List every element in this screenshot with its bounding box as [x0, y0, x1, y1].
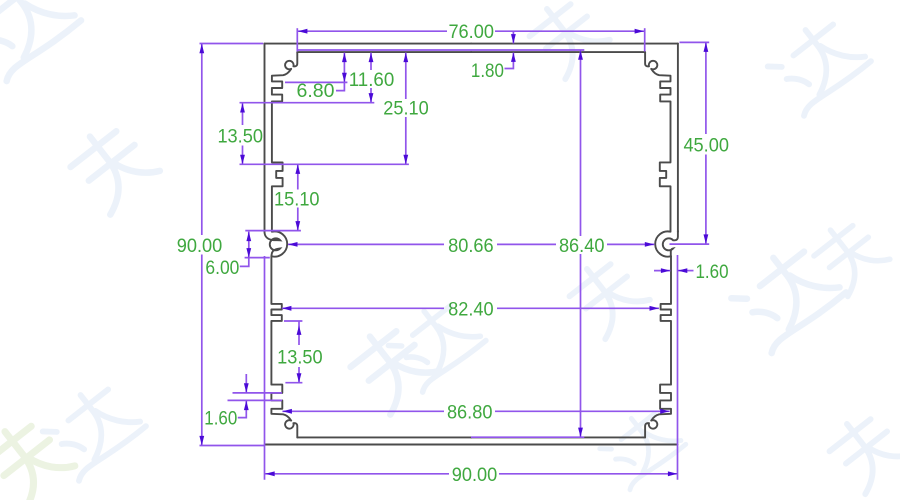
svg-text:1.60: 1.60 [204, 409, 237, 430]
dim 1.80 stub + leader [512, 32, 514, 43]
dim 6.00 + leader [240, 232, 249, 267]
svg-text:45.00: 45.00 [683, 136, 729, 157]
25.10 arrows [403, 53, 408, 63]
dim 13.50 lower [298, 321, 300, 345]
svg-text:6.80: 6.80 [297, 81, 335, 102]
6.00 arrows [246, 232, 251, 242]
dim 13.50 upper [242, 103, 244, 125]
left half of profile [265, 44, 472, 445]
right outer wall lower stub + right screw boss C-channel [663, 231, 678, 256]
svg-text:82.40: 82.40 [448, 300, 494, 321]
dim 15.10 [297, 164, 299, 189]
ext right outer wall / 90.00 bottom right (long vertical) [677, 255, 679, 480]
svg-text:11.60: 11.60 [349, 70, 395, 91]
ext shared y=231.5 (15.10 bottom / 6.00 top) [245, 230, 301, 232]
svg-text:6.00: 6.00 [205, 258, 239, 279]
svg-text:90.00: 90.00 [177, 236, 223, 257]
86.80 arrows [282, 409, 292, 414]
dim 25.10 [405, 53, 407, 99]
13.50 lower arrows [297, 325, 302, 335]
svg-text:86.80: 86.80 [447, 403, 493, 424]
90.00 bottom arrows [265, 471, 275, 476]
6.80 arrows [342, 53, 347, 63]
76.00 arrows [298, 29, 308, 34]
82.40 arrows [282, 306, 292, 311]
1.60 left arrows [244, 383, 249, 393]
86.40 arrows [578, 50, 583, 60]
svg-text:13.50: 13.50 [217, 127, 263, 148]
ext 1.60 left upper [233, 392, 283, 394]
svg-text:25.10: 25.10 [383, 99, 429, 120]
ext 76.00 right [644, 28, 646, 51]
dim 6.80 + leader [336, 53, 344, 91]
80.66 arrows [288, 242, 298, 247]
ext 45.00 top [680, 41, 710, 43]
left screw boss C-channel [265, 232, 281, 256]
svg-text:86.40: 86.40 [559, 236, 605, 257]
ext 76.00 left [296, 28, 298, 51]
ext shared y=164.3 (13.50 bottom / 15.10 top / 25.10 bottom) [240, 163, 409, 165]
1.80 arrows [511, 34, 516, 44]
dim 90.00 left vertical [201, 44, 203, 235]
1.60 right arrows [661, 268, 671, 273]
svg-text:1.60: 1.60 [696, 262, 729, 283]
svg-text:13.50: 13.50 [277, 348, 323, 369]
ext 86.40 top [297, 49, 585, 51]
dim 11.60 [370, 53, 372, 70]
dim 86.40 vertical [580, 50, 582, 236]
13.50 upper arrows [240, 103, 245, 113]
dim 82.40 [282, 307, 444, 309]
ext 13.50 lower bottom [285, 382, 302, 384]
dim 86.80 [282, 410, 444, 412]
ext 6.00 bottom [245, 257, 270, 259]
svg-text:90.00: 90.00 [452, 465, 498, 486]
ext 86.40 bottom (over black inner bottom line) [471, 436, 584, 438]
ext left outer wall / 90.00 bottom left (long vertical) [264, 256, 266, 480]
svg-text:80.66: 80.66 [448, 236, 494, 257]
ext shared y=102.7 (11.60 bottom / 13.50 top) [240, 102, 375, 104]
dim 90.00 bottom [265, 473, 449, 475]
dim 1.60 right [654, 270, 670, 272]
svg-text:15.10: 15.10 [274, 190, 320, 211]
dim 80.66 [288, 243, 444, 245]
11.60 arrows [369, 53, 374, 63]
right half of profile (mirrored) [471, 44, 678, 445]
ext 90.00 left bottom [200, 445, 265, 447]
dim 76.00 [297, 30, 447, 32]
svg-text:76.00: 76.00 [448, 22, 494, 43]
ext 45.00 bottom [670, 243, 710, 245]
svg-text:1.80: 1.80 [471, 61, 504, 82]
ext 1.60 left lower [228, 399, 283, 401]
dim 45.00 [705, 42, 707, 134]
ext 90.00 left top [200, 43, 264, 45]
15.10 arrows [295, 164, 300, 174]
ext 6.80 bottom [285, 81, 347, 83]
dim 1.60 left stubs + leader [245, 374, 247, 393]
90.00 left arrows [199, 44, 204, 54]
ext 13.50 lower top [284, 320, 302, 322]
45.00 arrows [704, 42, 709, 52]
